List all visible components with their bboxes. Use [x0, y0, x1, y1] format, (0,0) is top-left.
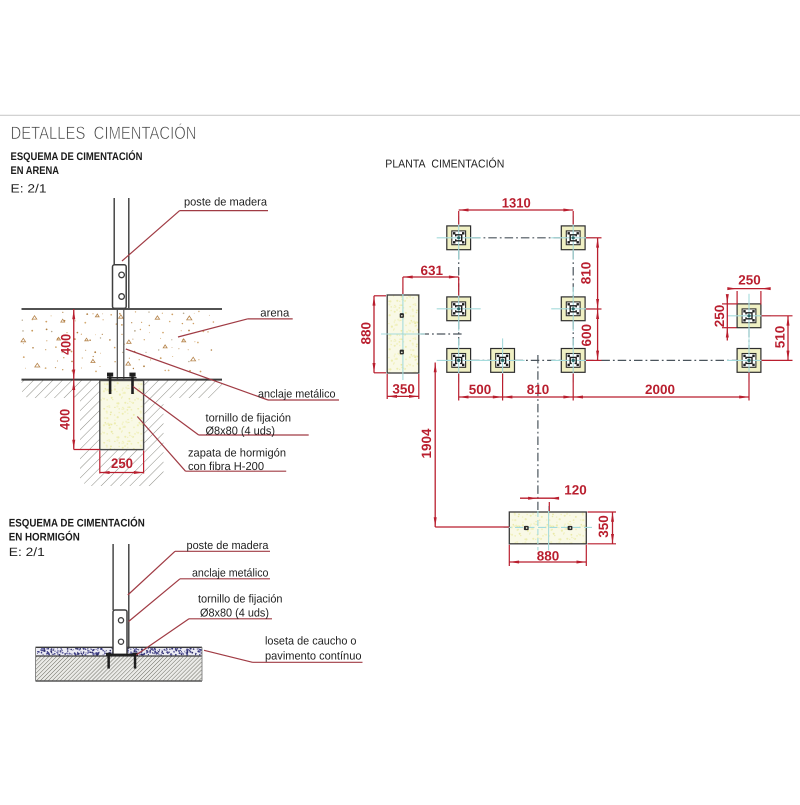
svg-text:arena: arena [260, 308, 290, 320]
svg-text:poste de madera: poste de madera [184, 197, 268, 209]
svg-text:510: 510 [773, 326, 788, 349]
svg-text:250: 250 [738, 273, 761, 288]
svg-text:Ø8x80 (4 uds): Ø8x80 (4 uds) [206, 425, 276, 437]
svg-text:Ø8x80 (4 uds): Ø8x80 (4 uds) [200, 608, 269, 620]
svg-text:250: 250 [712, 305, 727, 328]
svg-text:tornillo de fijación: tornillo de fijación [198, 594, 283, 606]
svg-text:880: 880 [359, 322, 374, 345]
svg-text:400: 400 [59, 334, 74, 355]
svg-text:tornillo de fijación: tornillo de fijación [206, 413, 292, 425]
svg-text:250: 250 [111, 456, 133, 471]
svg-text:anclaje metálico: anclaje metálico [258, 389, 336, 401]
svg-text:400: 400 [58, 409, 73, 430]
svg-text:600: 600 [579, 324, 594, 347]
svg-text:2000: 2000 [645, 382, 675, 397]
svg-text:1904: 1904 [419, 428, 434, 458]
svg-text:loseta de caucho o: loseta de caucho o [265, 636, 357, 648]
svg-text:ESQUEMA DE CIMENTACIÓN: ESQUEMA DE CIMENTACIÓN [11, 150, 143, 163]
svg-text:poste de madera: poste de madera [187, 540, 270, 552]
svg-text:pavimento contínuo: pavimento contínuo [265, 651, 362, 663]
svg-text:810: 810 [527, 382, 550, 397]
svg-text:PLANTA CIMENTACIÓN: PLANTA CIMENTACIÓN [385, 158, 504, 171]
svg-text:350: 350 [392, 381, 415, 396]
svg-text:con fibra H-200: con fibra H-200 [188, 461, 264, 473]
svg-text:DETALLES CIMENTACIÓN: DETALLES CIMENTACIÓN [11, 123, 197, 143]
svg-text:anclaje metálico: anclaje metálico [192, 568, 269, 580]
svg-text:E: 2/1: E: 2/1 [11, 182, 47, 196]
svg-text:631: 631 [421, 263, 444, 278]
svg-text:EN HORMIGÓN: EN HORMIGÓN [9, 531, 80, 544]
svg-text:zapata de hormigón: zapata de hormigón [188, 448, 286, 460]
svg-text:880: 880 [537, 548, 560, 563]
svg-text:500: 500 [469, 382, 492, 397]
svg-text:ESQUEMA DE CIMENTACIÓN: ESQUEMA DE CIMENTACIÓN [9, 517, 145, 530]
svg-text:E: 2/1: E: 2/1 [9, 545, 45, 559]
svg-text:120: 120 [564, 483, 587, 498]
svg-text:EN ARENA: EN ARENA [11, 165, 60, 177]
svg-text:350: 350 [596, 515, 611, 538]
svg-text:1310: 1310 [502, 196, 531, 211]
svg-text:810: 810 [578, 262, 593, 285]
